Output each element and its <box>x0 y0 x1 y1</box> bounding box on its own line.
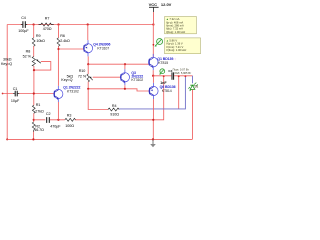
wire Q2 emitter to output node <box>152 70 154 76</box>
wire bottom ground rail y=139.4 <box>7 138 192 140</box>
svg-text:10µF: 10µF <box>11 99 20 103</box>
wire bias chain x=33.7 <box>33 25 35 140</box>
svg-text:KT3102: KT3102 <box>67 90 79 94</box>
svg-text:KT3102: KT3102 <box>131 78 143 82</box>
transistor Q2 BD139 (upper output) <box>148 25 175 71</box>
resistor R9 <box>32 34 45 46</box>
node junction x=33.7 y=119.8 <box>33 119 35 121</box>
wire Q6 emitter up to output node <box>152 76 154 83</box>
svg-text:KT815: KT815 <box>158 61 168 65</box>
svg-text:16.7Ω: 16.7Ω <box>34 128 44 132</box>
wire LED to ground rail <box>192 90 194 140</box>
node junction ground x=153 <box>152 138 154 140</box>
transistor Q4 (2N3906 PNP) <box>83 40 110 56</box>
svg-text:470Ω: 470Ω <box>43 27 52 31</box>
wire base row y=88.8 to Q6 <box>88 89 150 91</box>
node junction top rail x=33.6 <box>33 23 35 25</box>
node junction x=58.4 y=119.8 <box>57 119 59 121</box>
node junction x=153.3 y=119.8 <box>152 119 154 121</box>
node junction x=124.9 y=88.8 <box>124 88 126 90</box>
note yellow box 1 <box>165 17 197 34</box>
svg-text:R9: R9 <box>36 34 41 38</box>
node corner dot bottom-left <box>6 138 8 140</box>
node junction top rail x=58.5 <box>57 23 59 25</box>
transistor Q1 (2N2222 bottom-left) <box>54 86 81 103</box>
node junction ground rail x=33.4 <box>32 138 34 140</box>
wire left feedback vertical x=7.2 <box>6 25 8 140</box>
node junction top rail x=87.7 <box>87 23 89 25</box>
svg-text:100Ω: 100Ω <box>65 124 74 128</box>
capacitor C1 <box>11 87 20 103</box>
wire emitter row y=119.8 (rail A) <box>34 76 179 120</box>
svg-text:I(freq): 1.00 kHz: I(freq): 1.00 kHz <box>166 30 186 34</box>
svg-text:R1: R1 <box>36 103 41 107</box>
wire R8 wiper loop <box>34 62 51 71</box>
svg-text:R8: R8 <box>26 50 31 54</box>
svg-text:12.0V: 12.0V <box>161 2 172 7</box>
resistor R3 <box>65 114 76 129</box>
node junction x=125 y=64.2 <box>124 63 126 65</box>
wire down to LED (blue segment) <box>192 76 194 84</box>
node junction x=88.2 y=88.8 <box>87 88 89 90</box>
node junction x=163.7 on output wire <box>163 75 165 77</box>
VCC supply symbol <box>149 2 172 25</box>
probe 1 <box>155 39 163 47</box>
svg-text:Key=Q: Key=Q <box>1 62 12 66</box>
resistor R2 <box>32 122 44 132</box>
capacitor C4 <box>18 16 29 33</box>
svg-text:Key=Q: Key=Q <box>61 78 72 82</box>
node junction x=178.7 on output wire <box>178 75 180 77</box>
svg-text:72 %: 72 % <box>78 74 87 78</box>
wire Q3 emitter down <box>124 85 126 89</box>
svg-text:D1: D1 <box>195 85 199 89</box>
wire Q3 collector up <box>124 64 126 69</box>
svg-text:R3: R3 <box>67 114 72 118</box>
wire driver row y=64.2 <box>88 63 149 65</box>
resistor R4 <box>108 104 119 117</box>
node junction VCC x=153.4 <box>152 23 154 25</box>
transistor Q3 (2N2222 driver) <box>120 69 143 85</box>
svg-text:52 %: 52 % <box>23 54 32 58</box>
node output junction <box>152 75 154 77</box>
svg-text:KT3107: KT3107 <box>97 47 109 51</box>
svg-text:VCC: VCC <box>149 2 158 7</box>
resistor R6 2.4k <box>57 25 70 50</box>
wire R4 feed down <box>88 89 108 110</box>
node junction x=58.5 y=49 <box>57 48 59 50</box>
svg-text:R10: R10 <box>79 69 86 73</box>
node probe1 attach dot <box>153 44 155 46</box>
potentiometer R10 5k <box>61 64 92 89</box>
svg-text:Раб: 5,965 Вт: Раб: 5,965 Вт <box>175 71 192 75</box>
wire output to C3 <box>153 75 192 77</box>
wire top rail y=24.5 <box>7 24 153 26</box>
wire Q4 collector down <box>87 56 89 64</box>
node junction blue net at output wire <box>184 75 186 77</box>
capacitor C3 <box>160 67 192 85</box>
potentiometer R8 30k <box>1 50 41 66</box>
wire R10 wiper to Q3 base <box>93 76 121 78</box>
wire input y=93.5 <box>3 93 55 95</box>
svg-text:R6: R6 <box>60 34 65 38</box>
wire Q1 collector x=58.4 <box>57 49 59 86</box>
wire Q1 emitter x=58.4 <box>57 102 59 120</box>
wire Q6 collector down to rail A <box>152 99 154 139</box>
svg-text:KT814: KT814 <box>162 89 172 93</box>
transistor Q6 BD136 (lower output) <box>149 83 176 99</box>
wire R4 to output (blue net) <box>119 76 185 109</box>
svg-text:100µF: 100µF <box>18 29 29 33</box>
svg-text:27kΩ: 27kΩ <box>35 109 44 113</box>
LED1 <box>188 83 197 91</box>
svg-text:C4: C4 <box>21 16 26 20</box>
svg-text:10kΩ: 10kΩ <box>36 39 45 43</box>
svg-text:V(freq): 1.00 kHz: V(freq): 1.00 kHz <box>166 48 187 52</box>
wire Q4 base <box>59 48 84 50</box>
svg-text:2.4kΩ: 2.4kΩ <box>60 39 70 43</box>
svg-text:R4: R4 <box>112 104 117 108</box>
svg-text:C1: C1 <box>13 87 18 91</box>
node junction input/bias <box>33 92 35 94</box>
input terminal <box>2 93 4 95</box>
note yellow box 2 <box>165 38 201 54</box>
node junction pot bottom <box>33 69 35 71</box>
svg-text:470µF: 470µF <box>50 125 61 129</box>
node junction x=88.2 y=64.2 <box>87 63 89 65</box>
probe 2 <box>159 69 165 75</box>
svg-text:C2: C2 <box>46 112 51 116</box>
svg-text:1nF: 1nF <box>160 81 167 85</box>
svg-text:910Ω: 910Ω <box>110 113 119 117</box>
ground arrow <box>150 139 156 147</box>
resistor R1 <box>32 103 44 113</box>
wire Q4 emitter to VCC rail <box>87 25 89 41</box>
capacitor C2 <box>46 112 61 129</box>
resistor R7 <box>39 16 54 31</box>
svg-text:R7: R7 <box>45 16 50 20</box>
svg-text:Пуск: 0.07 Вт: Пуск: 0.07 Вт <box>173 67 190 71</box>
